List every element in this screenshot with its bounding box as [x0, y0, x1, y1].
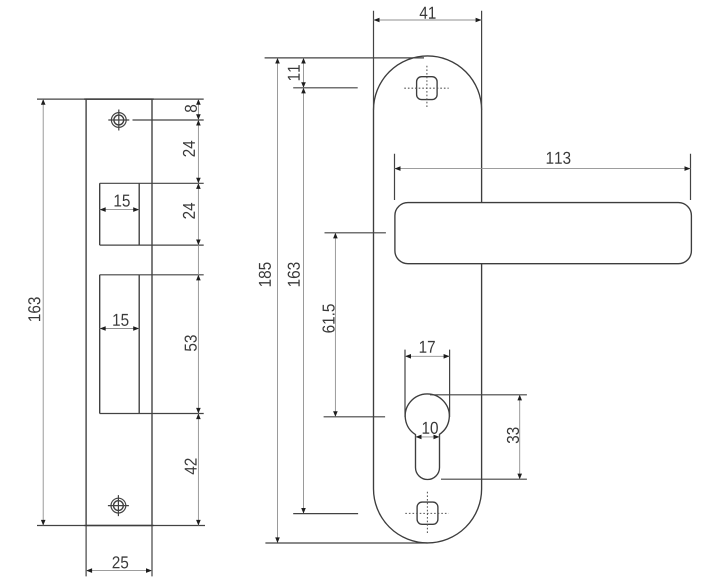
- 17 dim extension lines: [405, 350, 450, 417]
- top hole dashed center lines: [404, 66, 448, 109]
- plate bottom extension line: [265, 542, 427, 544]
- dimension 53: [185, 275, 201, 414]
- top hole center extension line: [293, 87, 358, 89]
- dimension 8: [185, 99, 201, 120]
- dimension 61.5: [322, 233, 337, 417]
- screw hole S2 bottom: [108, 495, 129, 516]
- dimension 185: [259, 58, 280, 543]
- dimension 17: [405, 341, 450, 359]
- latch cutout 1: [100, 183, 204, 245]
- dimension 163 right: [288, 88, 306, 514]
- dimension 113: [395, 152, 691, 171]
- screw hole S1 top: [108, 110, 129, 131]
- top square hole: [417, 77, 438, 100]
- dimension 42: [185, 414, 201, 526]
- top plate extension line: [265, 57, 424, 59]
- slot bottom extension line: [441, 478, 527, 480]
- dimension 24 upper: [183, 120, 201, 183]
- dimension 11: [288, 58, 306, 88]
- circle top extension line: [430, 394, 527, 396]
- dimension 15 cutout 1: [100, 195, 140, 212]
- cylinder center extension line: [324, 416, 386, 418]
- plate side extension lines to 25 dim: [86, 526, 152, 577]
- bottom screw center extension line: [293, 513, 358, 515]
- top edge extension line: [37, 98, 204, 100]
- strike plate outline: [86, 99, 152, 525]
- screw S1 center extension line: [133, 119, 204, 121]
- handle center extension line: [325, 232, 386, 234]
- latch cutout 2: [100, 275, 204, 414]
- dimension 10: [416, 422, 440, 439]
- dimension 41: [374, 7, 482, 22]
- dimension 25 bottom: [86, 556, 152, 573]
- bottom edge extension line: [37, 525, 205, 527]
- bottom square screw hole: [417, 502, 438, 524]
- right dimension column line: [197, 99, 199, 525]
- euro cylinder keyhole: [405, 394, 449, 480]
- handle lever: [395, 203, 692, 264]
- dimension 24 lower: [183, 183, 201, 245]
- dimension 163 left: [28, 99, 45, 525]
- dimension 33: [507, 395, 522, 479]
- handle plate outline (stadium): [374, 11, 482, 543]
- bottom hole dashed center lines: [405, 492, 448, 534]
- dimension 15 cutout 2: [100, 314, 140, 331]
- handle 113 extension lines: [395, 154, 691, 200]
